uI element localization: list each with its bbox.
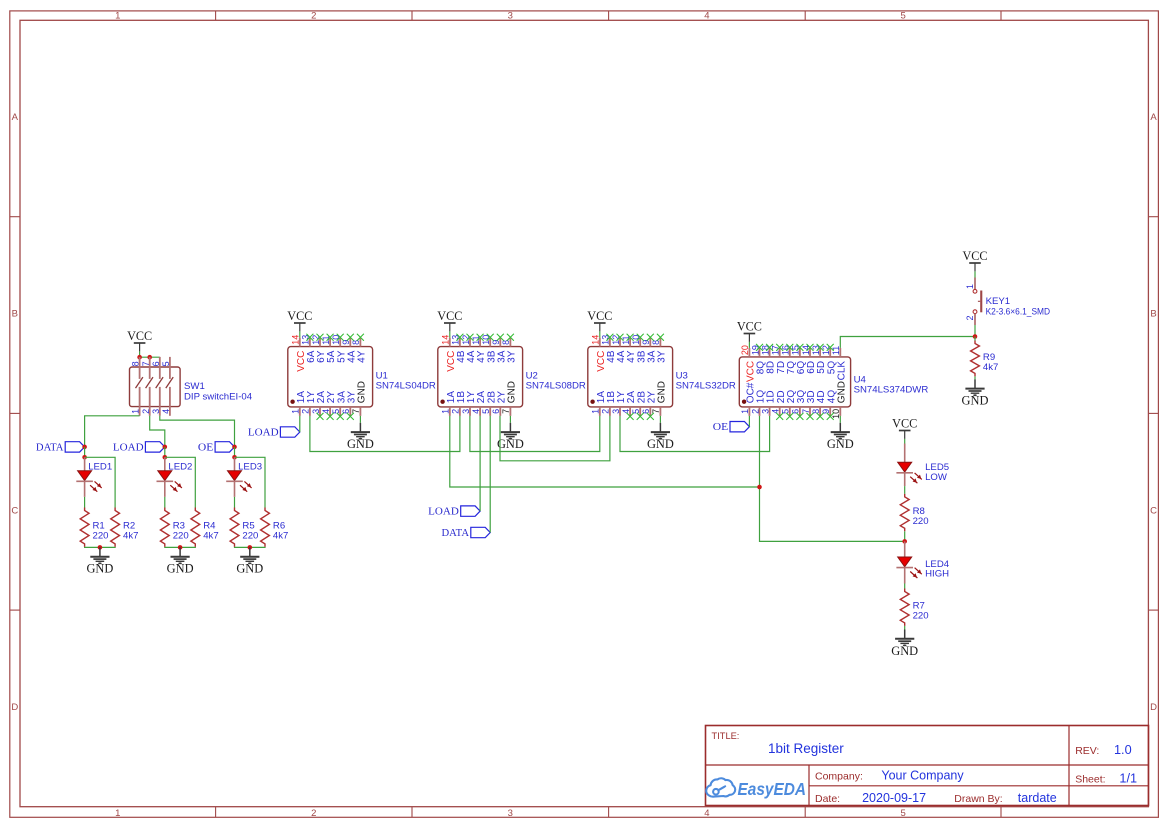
resistor R1	[80, 508, 108, 547]
svg-text:4: 4	[704, 808, 709, 819]
wire	[974, 337, 976, 341]
svg-text:2020-09-17: 2020-09-17	[862, 791, 926, 805]
wire resistor bottoms to ground	[85, 546, 116, 549]
VCC power flag U2	[437, 309, 462, 331]
net label LOAD at U2 pin4	[428, 506, 480, 518]
svg-text:SN74LS04DR: SN74LS04DR	[376, 381, 436, 392]
svg-text:1: 1	[591, 409, 601, 414]
svg-text:GND: GND	[497, 437, 524, 451]
svg-text:9: 9	[641, 340, 651, 345]
ground below U3	[647, 423, 674, 451]
U2 bottom pin names	[446, 381, 518, 403]
wire	[659, 416, 661, 423]
junction SW1 pin7	[147, 355, 152, 360]
U4 pin-1 marker dot	[742, 400, 746, 404]
junction node LOAD	[163, 445, 168, 450]
wire	[904, 486, 906, 494]
svg-text:GND: GND	[347, 437, 374, 451]
svg-text:B: B	[12, 309, 18, 320]
svg-text:14: 14	[291, 335, 301, 345]
U1 top pin names	[296, 350, 368, 371]
push button KEY1 K2-3.6x6.1_SMD	[973, 278, 982, 326]
LED LED3 anode pin	[234, 457, 236, 470]
VCC power flag KEY1	[962, 249, 987, 271]
junction OE/resistor branch	[232, 455, 237, 460]
svg-text:5: 5	[331, 409, 341, 414]
svg-text:GND: GND	[167, 562, 194, 576]
VCC power flag U1	[287, 309, 312, 331]
VCC symbol SW1	[127, 329, 152, 351]
net label DATA at U2 pin5	[442, 527, 491, 539]
junction LOAD/resistor branch	[163, 455, 168, 460]
wire	[164, 447, 166, 457]
svg-text:Company:: Company:	[815, 770, 863, 782]
svg-text:220: 220	[93, 531, 109, 542]
U4 bottom pin stubs	[749, 407, 840, 416]
svg-text:6: 6	[341, 409, 351, 414]
svg-text:GND: GND	[657, 381, 668, 403]
switch SW1 DIP switchEI-04 body	[130, 367, 181, 407]
ground below R7	[891, 630, 918, 658]
svg-text:8: 8	[651, 340, 661, 345]
svg-text:LOW: LOW	[925, 472, 948, 483]
wire	[599, 331, 601, 337]
LED LED1 cathode pin	[84, 481, 86, 497]
EasyEDA logo cloud	[706, 778, 735, 796]
svg-text:GND: GND	[827, 437, 854, 451]
wire to pullup resistor	[165, 457, 196, 507]
svg-text:2: 2	[601, 409, 611, 414]
svg-text:2: 2	[965, 316, 975, 321]
wire	[449, 331, 451, 337]
svg-text:DATA: DATA	[36, 442, 64, 453]
svg-text:LOAD: LOAD	[248, 428, 279, 439]
junction SW1 pin8/VCC	[137, 355, 142, 360]
ruler column numbers	[115, 10, 906, 819]
VCC power flag U3	[587, 309, 612, 331]
wire to pullup resistor	[235, 457, 266, 507]
svg-text:3Y: 3Y	[507, 350, 518, 363]
svg-text:GND: GND	[647, 437, 674, 451]
svg-text:3: 3	[508, 10, 513, 21]
svg-text:OE: OE	[198, 442, 213, 453]
svg-text:2: 2	[311, 10, 316, 21]
junction KEY1/R9/CLK node	[973, 334, 978, 339]
svg-text:5: 5	[781, 409, 791, 414]
resistor R5	[230, 508, 258, 547]
junction ground tap	[248, 545, 253, 550]
U2 no-connect flags	[456, 334, 514, 341]
svg-text:VCC: VCC	[587, 309, 612, 323]
LED LED4 cathode pin	[904, 568, 906, 584]
svg-text:Your Company: Your Company	[881, 768, 964, 782]
svg-text:CLK: CLK	[836, 361, 847, 381]
LED LED3 cathode pin	[234, 481, 236, 497]
svg-text:4: 4	[704, 10, 709, 21]
wire U1 pin1 to LOAD flag	[299, 416, 301, 432]
U2 bottom pin stubs	[450, 407, 511, 416]
svg-text:4: 4	[321, 409, 331, 414]
ground below R3/R4	[167, 547, 194, 575]
ruler row ticks	[10, 217, 1159, 610]
wire	[359, 416, 361, 423]
svg-text:A: A	[1150, 112, 1157, 123]
svg-text:REV:: REV:	[1075, 745, 1099, 757]
svg-text:5: 5	[481, 409, 491, 414]
svg-text:1: 1	[131, 409, 141, 414]
U4 bottom pin numbers	[740, 409, 841, 419]
svg-text:VCC: VCC	[437, 309, 462, 323]
wire	[974, 325, 976, 337]
svg-text:4: 4	[471, 409, 481, 414]
svg-text:2: 2	[311, 808, 316, 819]
U1 no-connect flags	[306, 334, 364, 420]
resistor R8	[900, 494, 928, 531]
resistor R4	[191, 508, 219, 547]
ground below U4	[827, 423, 854, 451]
U3 bottom pin numbers	[591, 409, 662, 414]
svg-text:1: 1	[115, 808, 120, 819]
svg-text:7: 7	[501, 409, 511, 414]
wire to pullup resistor	[85, 457, 116, 507]
svg-text:1bit Register: 1bit Register	[768, 741, 844, 756]
junction DATA/resistor branch	[82, 455, 87, 460]
U4 bottom pin names	[746, 381, 848, 403]
SW1 bottom pin numbers	[131, 409, 171, 414]
svg-text:20: 20	[740, 345, 750, 355]
net label LOAD flag	[113, 442, 165, 454]
svg-text:KEY1: KEY1	[986, 296, 1011, 307]
wire SW1 pin2 to LOAD node	[150, 416, 165, 447]
svg-text:4k7: 4k7	[123, 531, 138, 542]
svg-text:Sheet:: Sheet:	[1075, 774, 1105, 786]
wire	[84, 447, 86, 457]
resistor R2	[111, 508, 139, 547]
U3 bottom pin stubs	[600, 407, 661, 416]
svg-text:4: 4	[621, 409, 631, 414]
svg-text:D: D	[1150, 702, 1157, 713]
svg-text:HIGH: HIGH	[925, 568, 949, 579]
ruler row letters	[11, 112, 1157, 713]
svg-text:C: C	[1150, 505, 1157, 516]
wire	[509, 416, 511, 423]
wire	[164, 497, 166, 508]
svg-text:6: 6	[151, 361, 161, 366]
wire	[748, 342, 750, 348]
wire	[234, 447, 236, 457]
svg-text:220: 220	[173, 531, 189, 542]
VCC power flag U4	[737, 320, 762, 342]
wire U2 pin1 to node below U4	[450, 416, 760, 487]
resistor R7	[900, 589, 928, 626]
net label OE at U4 pin1	[713, 422, 750, 434]
svg-text:220: 220	[242, 531, 258, 542]
ground below U1	[347, 423, 374, 451]
svg-text:GND: GND	[836, 381, 847, 403]
svg-text:EasyEDA: EasyEDA	[738, 779, 807, 799]
IC U2 SN74LS08DR body	[438, 347, 523, 407]
svg-text:7: 7	[141, 361, 151, 366]
svg-text:2: 2	[141, 409, 151, 414]
IC U1 SN74LS04DR body	[288, 347, 373, 407]
wire	[84, 497, 86, 508]
svg-text:4: 4	[161, 409, 171, 414]
svg-text:TITLE:: TITLE:	[712, 731, 740, 741]
svg-text:SN74LS08DR: SN74LS08DR	[526, 381, 586, 392]
svg-text:DIP switchEI-04: DIP switchEI-04	[184, 392, 253, 403]
U2 pin-1 marker dot	[440, 400, 444, 404]
LED LED3	[226, 471, 251, 492]
svg-text:1: 1	[740, 409, 750, 414]
wire	[904, 584, 906, 589]
LED LED2 anode pin	[164, 457, 166, 470]
U1 bottom pin names	[296, 381, 368, 403]
svg-text:LED1: LED1	[88, 462, 112, 473]
wire U4 pin1 to OE flag	[748, 416, 750, 427]
wire U2 pin3 to U3 pin1	[470, 416, 600, 452]
wire	[299, 331, 301, 337]
wire U3 pin3 to U4 pin3	[620, 416, 770, 452]
svg-text:LOAD: LOAD	[113, 442, 144, 453]
svg-text:Date:: Date:	[815, 793, 840, 805]
LED LED2 cathode pin	[164, 481, 166, 497]
svg-text:VCC: VCC	[127, 329, 152, 343]
junction U4 pin2 / U2 pin1 net	[757, 485, 762, 490]
svg-text:8: 8	[501, 340, 511, 345]
U4 top pin names	[746, 361, 848, 382]
wire	[140, 356, 160, 358]
svg-text:GND: GND	[236, 562, 263, 576]
U4 no-connect flags	[756, 344, 834, 420]
U2 top pin names	[446, 350, 518, 371]
wire resistor bottoms to ground	[235, 546, 266, 549]
ground below R5/R6	[236, 547, 263, 575]
ground below U2	[497, 423, 524, 451]
U3 top pin stubs	[600, 338, 661, 347]
svg-text:2: 2	[750, 409, 760, 414]
svg-text:VCC: VCC	[892, 417, 917, 431]
SW1 switch levers	[136, 377, 174, 388]
svg-text:3: 3	[508, 808, 513, 819]
wire U2 pin6 to U3 pin2	[500, 416, 610, 461]
junction node OE	[232, 445, 237, 450]
U2 top pin numbers	[441, 335, 512, 345]
wire	[904, 531, 906, 541]
wire U4 pin2 to LED4 node	[760, 416, 905, 542]
svg-text:SN74LS374DWR: SN74LS374DWR	[854, 385, 929, 396]
net label DATA flag	[36, 442, 85, 454]
IC U3 SN74LS32DR body	[588, 347, 673, 407]
wire U2 pin4 to LOAD flag	[479, 416, 481, 511]
svg-text:220: 220	[913, 611, 929, 622]
U4 top pin stubs	[749, 348, 840, 357]
svg-text:6: 6	[641, 409, 651, 414]
U1 bottom pin stubs	[300, 407, 361, 416]
LED LED4 anode pin	[904, 541, 906, 557]
U3 pin-1 marker dot	[590, 400, 594, 404]
net label OE flag	[198, 442, 235, 454]
svg-text:1: 1	[291, 409, 301, 414]
wire	[974, 376, 976, 379]
title block dividers	[706, 726, 1149, 806]
U1 top pin stubs	[300, 338, 361, 347]
SW1 pins	[140, 357, 170, 416]
svg-text:SN74LS32DR: SN74LS32DR	[676, 381, 736, 392]
svg-text:DATA: DATA	[442, 528, 470, 539]
svg-text:C: C	[11, 505, 18, 516]
junction LED4/R8 output node	[902, 539, 907, 544]
svg-text:4k7: 4k7	[983, 362, 998, 373]
svg-text:4: 4	[771, 409, 781, 414]
svg-text:1: 1	[965, 284, 975, 289]
svg-text:5: 5	[631, 409, 641, 414]
ground below R9	[962, 379, 989, 407]
svg-text:8: 8	[131, 361, 141, 366]
svg-text:VCC: VCC	[287, 309, 312, 323]
svg-text:SW1: SW1	[184, 381, 205, 392]
svg-text:9: 9	[341, 340, 351, 345]
resistor R6	[261, 508, 289, 547]
svg-text:14: 14	[591, 335, 601, 345]
svg-text:3: 3	[611, 409, 621, 414]
IC U4 SN74LS374DWR body	[739, 357, 850, 407]
wire	[139, 351, 141, 357]
svg-text:4Y: 4Y	[357, 350, 368, 363]
wire resistor bottoms to ground	[165, 546, 196, 549]
svg-text:1: 1	[441, 409, 451, 414]
LED LED5 cathode pin	[904, 473, 906, 486]
wire	[904, 626, 906, 630]
U4 top pin numbers	[740, 345, 841, 355]
svg-text:LED3: LED3	[238, 462, 262, 473]
svg-text:5: 5	[900, 808, 905, 819]
U1 bottom pin numbers	[291, 409, 362, 414]
svg-text:3: 3	[311, 409, 321, 414]
svg-text:1: 1	[115, 10, 120, 21]
U1 pin-1 marker dot	[290, 400, 294, 404]
svg-text:9: 9	[491, 340, 501, 345]
svg-text:8: 8	[811, 409, 821, 414]
svg-text:4k7: 4k7	[273, 531, 288, 542]
svg-text:3Y: 3Y	[657, 350, 668, 363]
svg-text:GND: GND	[891, 644, 918, 658]
svg-text:7: 7	[351, 409, 361, 414]
junction ground tap	[98, 545, 103, 550]
svg-text:1/1: 1/1	[1119, 772, 1137, 786]
ground below R1/R2	[86, 547, 113, 575]
LED LED5	[896, 462, 921, 483]
U3 top pin names	[596, 350, 668, 371]
svg-text:5: 5	[900, 10, 905, 21]
wire SW1 pin1 to DATA node	[85, 416, 140, 447]
svg-text:VCC: VCC	[962, 249, 987, 263]
wire	[904, 439, 906, 444]
svg-text:3: 3	[760, 409, 770, 414]
LED LED4	[896, 557, 921, 578]
wire	[234, 497, 236, 508]
title block outer frame	[706, 726, 1149, 806]
svg-text:K2-3.6×6.1_SMD: K2-3.6×6.1_SMD	[986, 307, 1051, 318]
U3 top pin numbers	[591, 335, 662, 345]
junction node DATA	[82, 445, 87, 450]
svg-text:2: 2	[301, 409, 311, 414]
wire U1 pin2 to U2 pin2	[310, 416, 460, 452]
svg-text:D: D	[11, 702, 18, 713]
wire SW1 pin3 to OE node	[160, 416, 235, 447]
svg-text:220: 220	[913, 516, 929, 527]
resistor R9	[971, 341, 999, 377]
SW1 top pin numbers	[131, 361, 171, 366]
svg-text:VCC: VCC	[737, 320, 762, 334]
wire	[839, 416, 841, 423]
svg-text:3: 3	[151, 409, 161, 414]
svg-text:GND: GND	[507, 381, 518, 403]
svg-text:A: A	[12, 112, 19, 123]
svg-text:5: 5	[161, 361, 171, 366]
svg-text:2: 2	[451, 409, 461, 414]
svg-text:OE: OE	[713, 422, 728, 433]
svg-text:GND: GND	[962, 394, 989, 408]
ruler column ticks	[216, 11, 1001, 817]
net label LOAD at U1 pin1	[248, 427, 300, 439]
U2 bottom pin numbers	[441, 409, 512, 414]
svg-text:GND: GND	[357, 381, 368, 403]
svg-text:8: 8	[351, 340, 361, 345]
svg-text:B: B	[1150, 309, 1156, 320]
svg-text:9: 9	[821, 409, 831, 414]
svg-text:Drawn By:: Drawn By:	[954, 793, 1002, 805]
svg-text:7: 7	[801, 409, 811, 414]
svg-text:6: 6	[491, 409, 501, 414]
U3 bottom pin names	[596, 381, 668, 403]
LED LED1	[76, 471, 101, 492]
svg-text:LOAD: LOAD	[428, 507, 459, 518]
wire	[974, 271, 976, 277]
U3 no-connect flags	[606, 334, 664, 420]
svg-text:6: 6	[791, 409, 801, 414]
wire U4 pin11 CLK to KEY1 node	[840, 337, 975, 348]
svg-text:3: 3	[461, 409, 471, 414]
U1 top pin numbers	[291, 335, 362, 345]
svg-text:1.0: 1.0	[1114, 743, 1132, 757]
svg-text:LED2: LED2	[168, 462, 192, 473]
LED LED5 anode pin	[904, 444, 906, 463]
svg-text:7: 7	[651, 409, 661, 414]
VCC power flag LED5	[892, 417, 917, 439]
svg-text:14: 14	[441, 335, 451, 345]
LED LED2	[157, 471, 182, 492]
svg-text:GND: GND	[86, 562, 113, 576]
wire U2 pin5 to DATA flag	[489, 416, 491, 533]
resistor R3	[160, 508, 188, 547]
svg-text:tardate: tardate	[1018, 791, 1057, 805]
junction ground tap	[178, 545, 183, 550]
U2 top pin stubs	[450, 338, 511, 347]
LED LED1 anode pin	[84, 457, 86, 470]
svg-text:4k7: 4k7	[203, 531, 218, 542]
